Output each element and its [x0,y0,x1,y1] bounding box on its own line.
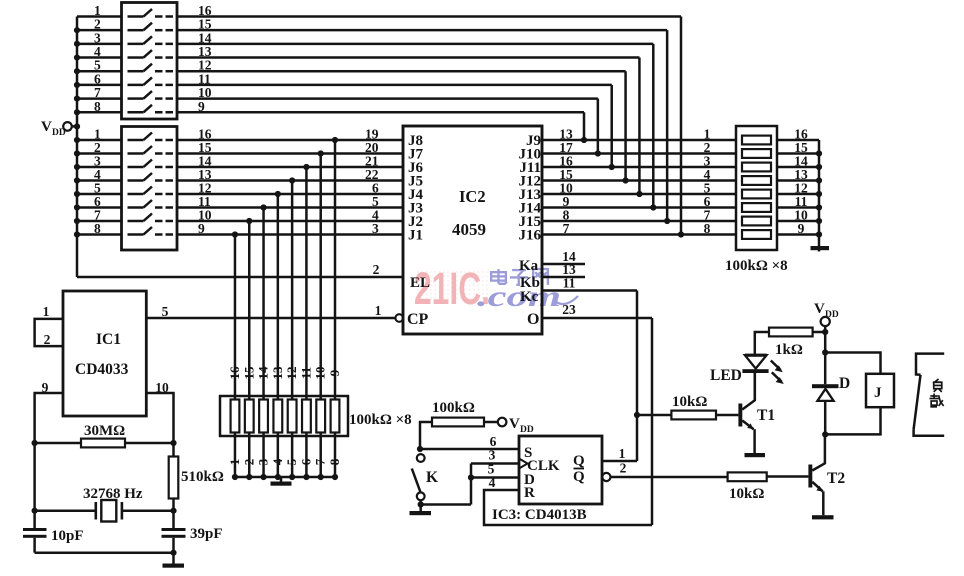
wire column drop to row J13 [638,58,641,194]
node crystal left [31,508,37,514]
node relay bottom junction [822,431,828,437]
pin label RN2-10 [794,208,808,223]
IC1 label [96,331,121,348]
pin number 1 (CP) [375,303,382,318]
svg-text:10: 10 [313,367,328,380]
wire bus to S2 pin 1 [77,139,122,142]
svg-text:11: 11 [298,367,313,379]
ground T2 [812,515,834,519]
svg-text:10kΩ: 10kΩ [729,486,764,502]
node RN1 common 2 [246,474,252,480]
wire bus to S2 pin 4 [77,179,122,182]
pin label RN2-7 [704,208,711,223]
wire bus to S2 pin 2 [77,152,122,155]
svg-text:1kΩ: 1kΩ [775,342,803,358]
pin label S2-7 [94,208,101,223]
pin label RN2-13 [794,167,808,182]
pin label RN1-16 rotated [227,366,242,380]
switch S1-2 [128,23,174,31]
resistor R-10k-T2 body [728,472,767,481]
svg-text:J1: J1 [408,228,423,244]
pin number 23 [562,302,576,317]
wire bus to S2 pin 6 [77,206,122,209]
wire bus to S2 pin 7 [77,220,122,223]
ground RN2 [811,246,830,252]
node tap row 7 [246,218,252,224]
wire tap 4 vertical [291,181,294,400]
pin label S2-13 [198,167,212,182]
IC2 jam input J16 label [519,228,542,244]
op IC2 body [403,126,542,334]
IC3 Q label [573,453,585,469]
wire osc bottom rail [35,551,174,554]
node column 1 on row J9 [581,137,587,143]
resistor 510k value [181,469,224,485]
capacitor C1 10pF plates [23,528,47,538]
IC3 Qbar bubble [602,473,610,481]
ground RN1 [271,477,292,486]
resistor R-10k-T1 body [671,411,716,420]
IC3 CLK label [527,458,560,474]
crystal X1 body [101,500,116,522]
load label fu [934,379,942,392]
svg-text:15: 15 [241,366,256,380]
wire relay bottom branch [825,407,880,434]
wire RN2 pin 12 to bus [777,193,819,196]
node column 7 on row J15 [664,218,670,224]
svg-text:R: R [524,485,535,501]
node K bottom [418,501,424,507]
svg-text:16: 16 [227,366,242,380]
transistor T1 collector [742,373,755,410]
resistor RN2-6 element [742,203,771,212]
IC3 S label [524,445,532,461]
pin label S1-2 [94,17,101,32]
load bracket [914,354,945,436]
svg-text:8: 8 [327,458,342,465]
wire O output vertical [651,318,654,525]
node VDD-bus junction [74,123,80,129]
wire 10k T1 left lead [637,414,671,417]
svg-text:CP: CP [407,311,429,328]
pin label S2-2 [94,140,101,155]
wire S1 pin 16 to column [177,15,681,18]
node bus upper row 2 [74,27,80,33]
wire tap 8 vertical [234,235,237,400]
resistor RN1-15 element [245,400,254,433]
diode D anode triangle [817,389,833,401]
wire RN1-9 bottom lead [334,433,337,478]
wire S1 pin 15 to column [177,29,667,32]
wire R net loop [484,490,652,525]
wire IC2 J15 to network [542,220,736,223]
pin number 13 [562,262,576,277]
wire bus to S1 pin 3 [77,43,122,46]
svg-text:9: 9 [327,369,342,376]
load label zai [930,394,944,407]
resistor RN2-2 element [742,149,771,158]
svg-text:D: D [839,375,850,392]
node osc right top [170,440,176,446]
wire S1 pin 13 to column [177,56,639,59]
switch S2-8 [128,227,174,235]
pin number IC2 pin 19 [365,127,379,142]
IC2 part number 4059 [452,220,486,239]
IC2 jam input J7 label [408,147,424,163]
switch S2-3 [128,160,174,168]
pin number IC2 pin 10 (J13) [559,181,573,196]
wire S2 pin 16 to IC2 [177,139,403,142]
resistor RN2-1 element [742,136,771,145]
pin number 1 (Q) [619,446,626,461]
wire VDD right stem [824,326,827,352]
pin label S2-8 [94,221,101,236]
pin label S2-4 [94,167,101,182]
node RN2 bus row 14 [816,164,822,170]
wire bus to S1 pin 7 [77,97,122,100]
pin label RN1-2 rotated [241,459,256,466]
IC2 Kb label [520,275,540,291]
wire column drop to row J15 [666,30,669,221]
wire C2 bottom lead [172,538,175,553]
pin number 11 [563,276,576,291]
switch K top contact [417,454,425,462]
resistor RN2-8 element [742,230,771,239]
svg-text:V: V [509,416,520,432]
switch S2-1 [128,133,174,141]
wire RN1-12 bottom lead [291,433,294,478]
pin label IC1-1 [43,304,50,319]
wire Kb pin 13 stub [542,276,585,279]
pin number IC2 pin 4 [372,208,379,223]
pin label RN2-8 [704,221,711,236]
pin label RN2-9 [798,221,805,236]
svg-text:8: 8 [704,221,711,236]
wire bus to S1 pin 4 [77,56,122,59]
pin label RN1-11 rotated [298,367,313,379]
svg-text:23: 23 [562,302,576,317]
pin label RN1-6 rotated [298,458,313,465]
IC2 O output label [527,311,539,328]
wire S1 pin 14 to column [177,43,653,46]
node tap row 2 [318,150,324,156]
VDD terminal circle right [821,317,830,326]
svg-text:.com: .com [477,280,561,313]
resistor RN1-13 element [273,400,282,433]
transistor T1 base bar [738,404,742,427]
wire bus to S2 pin 8 [77,233,122,236]
resistor 100k value [432,400,475,416]
svg-text:T1: T1 [757,407,775,424]
wire RN2 pin 16 to bus [777,139,819,142]
switch K bottom contact [417,492,425,500]
pin number IC2 pin 22 [365,167,379,182]
capacitor 10pF value [51,528,84,544]
IC3 R label [524,485,535,501]
wire S2 pin 11 to IC2 [177,206,403,209]
switch K lever [412,469,421,493]
svg-text:7: 7 [313,458,328,465]
wire Kc pin 11 [542,289,637,292]
resistor RN1-12 element [288,400,297,433]
wire bus to S2 pin 3 [77,166,122,169]
pin label IC1-10 [155,380,169,395]
IC2 jam input J2 label [408,214,423,230]
node RN1 common 4 [275,474,281,480]
IC2 CP inversion bubble [395,314,403,322]
pin label RN1-3 rotated [256,458,271,465]
pin label S1-7 [94,85,101,100]
relay J body [866,374,894,407]
pin number IC2 pin 15 (J12) [559,167,573,182]
LED anode triangle [745,354,767,369]
pin label S2-12 [198,181,212,196]
node RN1 common 6 [303,474,309,480]
wire 100k left lead [420,422,432,449]
svg-text:2: 2 [620,461,627,476]
wire T1 emitter down [753,429,756,453]
resistor R-100k body [432,418,484,427]
wire RN1-11 bottom lead [305,433,308,478]
wire S2 pin 10 to IC2 [177,220,403,223]
IC1 part number CD4033 [75,361,129,378]
svg-text:1: 1 [43,304,50,319]
wire IC2 J12 to network [542,179,736,182]
pin number IC2 pin 20 [365,140,379,155]
crystal X1 left plate [95,502,98,520]
pin number IC2 pin 6 [372,181,379,196]
node RN1 common 5 [289,474,295,480]
wire IC2 J13 to network [542,193,736,196]
LED label [710,367,742,384]
wire RN2 pin 11 to bus [777,206,819,209]
wire RN1-16 bottom lead [234,433,237,478]
switch S1-3 [128,36,174,44]
wire RN2 ground bus [818,140,821,246]
wire crystal left lead [35,509,96,512]
svg-text:14: 14 [256,366,271,380]
wire bus to S1 pin 5 [77,70,122,73]
pin label RN1-9 rotated [327,369,342,376]
svg-text:2: 2 [241,459,256,466]
svg-text:Q: Q [573,453,585,469]
node bus upper row 4 [74,54,80,60]
pin label S2-1 [94,127,101,142]
pin label S2-15 [198,140,212,155]
pin label RN2-14 [794,154,808,169]
node RN2 bus row 10 [816,218,822,224]
wire RN1-14 bottom lead [262,433,265,478]
pin label S2-10 [198,208,212,223]
IC2 jam input J9 label [526,133,541,149]
node T1 base branch [634,412,640,418]
pin number 3 (CLK) [489,448,496,463]
wire tap 2 vertical [319,154,322,400]
switch K label [426,469,438,486]
wire S1 pin 10 to column [177,97,598,100]
resistor 10k T2 value [729,486,764,502]
resistor RN2-4 element [742,176,771,185]
node bus lower row 7 [74,218,80,224]
wire S1 pin 11 to column [177,84,612,87]
pin number IC2 pin 21 [365,154,379,169]
pin number 5 (D) [488,462,495,477]
pin label S1-3 [94,30,101,45]
watermark swash [556,296,578,304]
node RN2 bus row 15 [816,150,822,156]
svg-text:K: K [426,469,438,486]
svg-text:4: 4 [270,458,285,465]
node column 6 on row J14 [650,204,656,210]
IC2 Ka label [519,258,539,274]
pin label RN1-12 rotated [284,367,299,380]
node RN2 bus row 12 [816,191,822,197]
pin number IC2 pin 17 (J10) [559,140,573,155]
pin label S1-12 [198,58,212,73]
switch S1-8 [128,105,174,113]
wire T2 emitter down [822,491,825,515]
pin label S2-5 [94,181,101,196]
wire IC1 pins 1-2 loop [35,319,63,346]
pin label S1-14 [198,30,212,45]
wire tap 3 vertical [305,167,308,400]
wire VDD stub [72,125,77,128]
node tap row 6 [260,204,266,210]
svg-text:13: 13 [270,366,285,380]
switch S2-6 [128,200,174,208]
IC2 jam input J4 label [408,187,424,203]
wire S1 pin 12 to column [177,70,626,73]
svg-text:1: 1 [375,303,382,318]
node RN1 common 7 [318,474,324,480]
VDD terminal circle left [63,122,72,131]
pin label S1-4 [94,44,101,59]
wire bus to S1 pin 8 [77,111,122,114]
pin label S1-6 [94,71,101,86]
IC2 jam input J1 label [408,228,423,244]
transistor T1 emitter [742,421,754,430]
capacitor 39pF value [190,526,223,542]
resistor RN1-14 element [259,400,268,433]
IC2 jam input J14 label [519,201,542,217]
watermark Chinese wang [533,269,548,285]
pin label IC1-9 [42,380,49,395]
pin number IC2 pin 3 [372,221,379,236]
DIP switch block S2 body [122,127,178,251]
pin number 4 (R) [489,475,496,490]
IC2 jam input J3 label [408,201,423,217]
relay J label [874,385,882,401]
wire C1 bottom lead [33,538,36,553]
pin number IC2 pin 8 (J15) [563,208,570,223]
wire RN1-13 bottom lead [277,433,280,478]
wire K to CLK/D return [421,503,471,506]
diode D cathode bar [812,384,839,388]
switch S1-1 [128,9,174,17]
wire crystal right lead [122,509,174,512]
wire tap 6 vertical [262,208,265,400]
svg-text:Kc: Kc [520,289,539,305]
wire bus to S1 pin 1 [77,15,122,18]
wire K bottom stub [419,500,422,504]
wire bus to E pin (net E) [77,276,403,279]
IC2 jam input J15 label [519,214,542,230]
wire RN2 pin 10 to bus [777,220,819,223]
wire S2 pin 12 to IC2 [177,193,403,196]
svg-text:IC2: IC2 [459,187,486,206]
ground K [410,505,432,516]
wire bus to S2 pin 5 [77,193,122,196]
svg-text:10kΩ: 10kΩ [672,394,707,410]
svg-text:3: 3 [489,448,496,463]
svg-text:8: 8 [94,221,101,236]
wire CLK vertical [470,464,473,505]
svg-text:100kΩ: 100kΩ [432,400,475,416]
pin label RN1-14 rotated [256,366,271,380]
resistor 1k value [775,342,803,358]
pin label RN2-5 [704,181,711,196]
pin label RN2-1 [704,127,711,142]
pin label S2-6 [94,194,101,209]
svg-text:10pF: 10pF [51,528,84,544]
resistor network RN1 body [220,396,348,436]
switch S2-5 [128,187,174,195]
pin label S1-15 [198,17,212,32]
ground osc [163,553,185,568]
wire right osc upper vertical [172,443,175,457]
wire RN1-10 bottom lead [319,433,322,478]
IC2 jam input J6 label [408,160,424,176]
IC2 label [459,187,486,206]
svg-text:12: 12 [284,367,299,380]
svg-text:39pF: 39pF [190,526,223,542]
wire left VDD bus vertical [76,17,79,278]
wire Ka pin 14 stub [542,263,585,266]
resistor 10k T1 value [672,394,707,410]
IC2 jam input J5 label [408,174,423,190]
crystal X1 right plate [121,502,124,520]
resistor RN2-5 element [742,190,771,199]
pin label RN2-3 [704,154,711,169]
svg-text:J: J [874,385,882,401]
wire S1 pin 9 to column [177,111,584,114]
svg-text:IC3: CD4013B: IC3: CD4013B [492,507,587,523]
svg-text:30MΩ: 30MΩ [84,423,125,439]
node relay top junction [822,349,828,355]
svg-text:CD4033: CD4033 [75,361,129,378]
wire Q output [602,460,637,463]
svg-text:5: 5 [284,458,299,465]
wire column drop to row J11 [610,85,613,167]
node bus upper row 3 [74,41,80,47]
VDD terminal circle mid [498,418,507,427]
node bus lower row 2 [74,150,80,156]
switch S2-4 [128,173,174,181]
IC2 jam input J8 label [408,133,423,149]
wire 30M right lead [125,442,174,445]
wire S2 pin 13 to IC2 [177,179,403,182]
node column 2 on row J10 [595,150,601,156]
wire S2 pin 14 to IC2 [177,166,403,169]
node CLK-D junction [468,474,474,480]
pin label RN1-10 rotated [313,367,328,380]
node column 4 on row J12 [622,177,628,183]
wire CLK net [471,462,519,465]
wire LED cathode down [754,373,757,401]
node bus upper row 8 [74,109,80,115]
svg-text:T2: T2 [827,470,845,487]
resistor RN1-9 element [331,400,340,433]
